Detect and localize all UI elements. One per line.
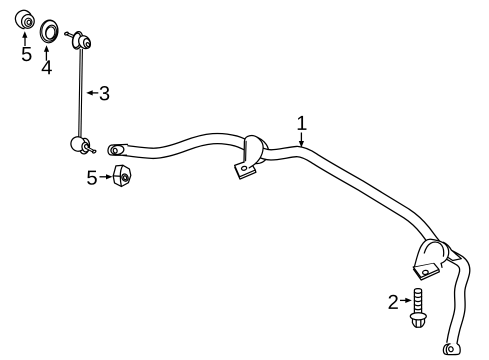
nut 5 (hex, below link): [113, 165, 131, 186]
washer 4 hole: [44, 24, 58, 40]
link top ball joint hole: [86, 42, 91, 47]
leader arrow 5 top: [24, 38, 26, 47]
nut 5 (top left, cylindrical): [15, 10, 30, 28]
nut 5 top-left face: [20, 14, 35, 30]
bracket 1 flange: [235, 160, 256, 177]
right eyelet hole: [448, 346, 454, 352]
stabilizer bar 1 (white core): [123, 139, 465, 344]
leader arrow 3: [93, 92, 99, 94]
link bottom stud tip cap: [92, 150, 96, 154]
leader arrow 1: [300, 133, 302, 142]
label 5 (bottom): [87, 171, 97, 185]
bracket 1 flange thickness edge: [235, 167, 256, 179]
link bottom ball joint flange: [79, 138, 91, 154]
label 2: [389, 295, 398, 309]
leader arrow 2: [400, 299, 406, 301]
label 4: [42, 60, 52, 74]
label 3: [100, 86, 110, 100]
bracket 2 flange hole: [422, 270, 428, 275]
link bottom stud: [87, 148, 94, 152]
bushing 2 lower-left edge peek: [440, 259, 442, 268]
bracket 1 strap inner edge: [245, 141, 248, 161]
bolt 2: [414, 289, 421, 313]
bolt 2 threads: [414, 292, 421, 310]
bushing 2 end face (covers bar exit): [441, 242, 462, 260]
bracket 2 strap inner edge: [424, 242, 443, 256]
washer 4 face rim: [41, 20, 59, 42]
bracket 2 saddle strap: [415, 239, 449, 266]
stabilizer bar 1 (outline): [123, 139, 465, 344]
bracket 2 flange thickness edge: [414, 269, 440, 280]
link bottom ball joint dome: [68, 134, 87, 154]
bracket 1 saddle strap: [244, 136, 263, 168]
nut 5 top-left hole: [24, 18, 33, 27]
bar right end eyelet: [443, 344, 460, 355]
right eyelet face rim: [446, 345, 448, 354]
link bottom ball joint socket: [81, 142, 89, 153]
link top ball joint dome: [76, 34, 92, 51]
hex nut hole: [121, 173, 130, 182]
bracket 1 flange hole: [241, 166, 247, 171]
bolt 2 flange: [410, 313, 426, 320]
bushing 2 rim line: [442, 244, 448, 250]
link top ball joint socket: [83, 38, 92, 49]
bracket 2 flange: [413, 263, 439, 278]
bolt 2 hex head body: [412, 317, 424, 328]
link bottom ball joint hole: [84, 144, 89, 150]
label 5 (top): [22, 47, 32, 61]
link top ball joint flange rim: [72, 32, 82, 48]
label 1: [298, 116, 307, 130]
washer 4: [39, 19, 59, 44]
bushing 1 (rubber, bracket 1): [253, 136, 269, 163]
bar left eyelet: [108, 144, 128, 155]
leader arrow 4: [45, 52, 47, 61]
left eyelet face: [110, 145, 124, 156]
link top stud: [67, 34, 77, 38]
link rod 3: [80, 49, 82, 139]
link top ball joint flange: [71, 31, 84, 50]
link top stud tip cap: [64, 32, 68, 36]
leader arrow 5 bottom: [100, 176, 107, 178]
left eyelet hole: [113, 148, 118, 154]
